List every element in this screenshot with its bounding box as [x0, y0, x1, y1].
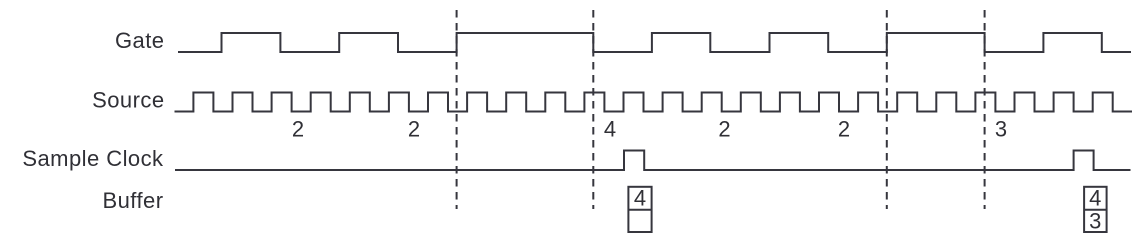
Sample Clock waveform [175, 151, 1131, 171]
Source waveform [175, 93, 1133, 112]
dashed cursor line 4 [984, 10, 986, 209]
buffer box 1 (two cells) [628, 187, 651, 232]
dashed cursor line 1 [456, 10, 458, 209]
svg-text:Gate: Gate [115, 28, 165, 53]
svg-text:Buffer: Buffer [103, 188, 164, 213]
svg-text:Sample Clock: Sample Clock [22, 146, 164, 171]
svg-text:2: 2 [718, 116, 730, 141]
svg-text:2: 2 [408, 116, 420, 141]
svg-text:3: 3 [995, 116, 1007, 141]
buffer box 2 (two cells) [1084, 187, 1107, 232]
svg-text:Source: Source [92, 88, 164, 113]
dashed cursor line 3 [886, 10, 888, 209]
svg-text:4: 4 [1089, 186, 1101, 211]
svg-text:4: 4 [604, 116, 616, 141]
buffer box 2 divider [1084, 209, 1107, 211]
buffer box 1 divider [628, 209, 651, 211]
svg-text:2: 2 [838, 116, 850, 141]
dashed cursor line 2 [592, 10, 594, 209]
svg-text:2: 2 [292, 116, 304, 141]
svg-text:4: 4 [634, 186, 646, 211]
Gate waveform [178, 33, 1131, 52]
svg-text:3: 3 [1089, 209, 1101, 234]
